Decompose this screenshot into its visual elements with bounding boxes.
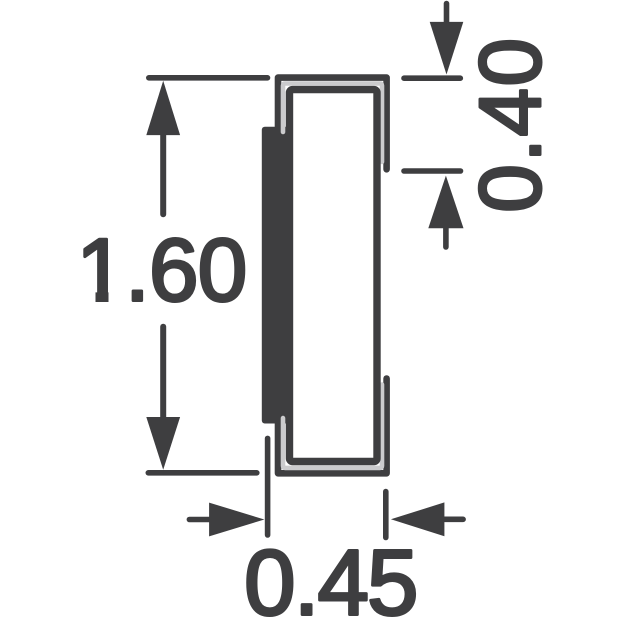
package outer outline bottom segment bbox=[278, 379, 387, 474]
silver plating top segment bbox=[283, 84, 382, 162]
dimension 1.60 upper arrowhead bbox=[146, 81, 180, 135]
package outer outline top segment bbox=[278, 78, 387, 170]
electrode bar (left termination) bbox=[262, 127, 294, 424]
dimension 0.40 upper arrowhead (pointing down) bbox=[430, 22, 464, 75]
dimension 0.45 right arrow shaft bbox=[441, 516, 463, 522]
extension line bottom-left bbox=[148, 470, 256, 476]
dimension 1.60 lower arrow shaft bbox=[160, 327, 166, 419]
mask: hide Liberation "1" foot serif (left side) bbox=[79, 291, 96, 304]
extension line top-left bbox=[149, 75, 268, 81]
body (white ceramic) inner frame bbox=[290, 90, 378, 462]
extension line mid-right bbox=[404, 168, 461, 174]
extension line bottom vertical right bbox=[383, 492, 389, 538]
dimension 0.45 left arrow shaft bbox=[189, 517, 212, 523]
dimension 0.40 upper arrow shaft bbox=[444, 4, 450, 28]
extension line bottom vertical left bbox=[265, 438, 271, 535]
dimension 0.40 lower arrowhead (pointing up) bbox=[428, 176, 463, 229]
dimension 1.60 upper arrow shaft bbox=[160, 133, 166, 214]
dimension 0.45 left arrowhead (pointing right) bbox=[209, 503, 264, 537]
svg-text:0.45: 0.45 bbox=[244, 531, 416, 635]
svg-text:1.60: 1.60 bbox=[76, 220, 246, 320]
dimension 1.60 lower arrowhead bbox=[146, 417, 180, 470]
extension line top-right bbox=[404, 75, 460, 81]
dimension 0.40 lower arrow shaft bbox=[443, 228, 449, 247]
svg-text:0.40: 0.40 bbox=[462, 36, 559, 213]
silver plating bottom segment bbox=[283, 385, 382, 468]
dimension 0.45 right arrowhead (pointing left) bbox=[391, 502, 445, 536]
mask: hide Liberation "1" foot serif (right side) bbox=[109, 291, 125, 304]
